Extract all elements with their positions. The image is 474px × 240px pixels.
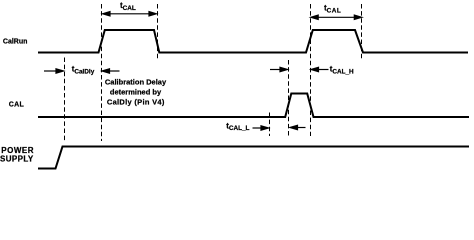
- svg-text:CalRun: CalRun: [3, 39, 28, 46]
- svg-text:CalDly (Pin V4): CalDly (Pin V4): [107, 98, 165, 107]
- svg-text:SUPPLY: SUPPLY: [0, 155, 34, 164]
- svg-text:determined by: determined by: [110, 88, 162, 97]
- svg-text:tCAL_L: tCAL_L: [226, 121, 249, 132]
- svg-text:tCAL_H: tCAL_H: [330, 65, 354, 76]
- svg-text:Calibration Delay: Calibration Delay: [105, 78, 167, 87]
- svg-text:CAL: CAL: [9, 102, 25, 109]
- svg-text:tCAL: tCAL: [324, 4, 341, 15]
- svg-text:tCAL: tCAL: [120, 1, 136, 12]
- svg-text:tCalDly: tCalDly: [72, 65, 95, 76]
